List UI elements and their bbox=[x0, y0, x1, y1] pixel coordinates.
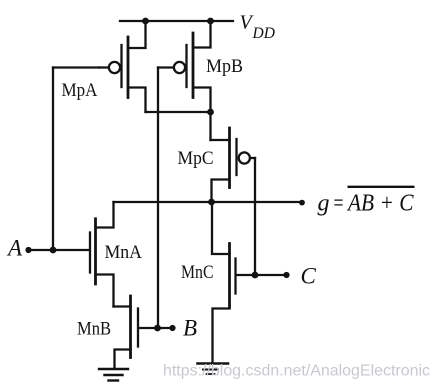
label VDD bbox=[240, 11, 275, 42]
transistor MnC bbox=[212, 202, 287, 364]
transistor MnB bbox=[114, 296, 173, 369]
wire: PMOS common-source bus bbox=[146, 111, 211, 113]
svg-text:A: A bbox=[6, 236, 23, 261]
junction dot: output / MpC,MnC drains bbox=[208, 199, 215, 206]
junction dot: C riser / MnC gate bbox=[252, 272, 259, 279]
label output g = overline(AB+C) bbox=[318, 187, 415, 217]
junction dot: B / MnB gate bbox=[154, 325, 161, 332]
ground (under MnC) bbox=[198, 364, 229, 375]
svg-text:B: B bbox=[183, 316, 197, 341]
svg-text:DD: DD bbox=[252, 25, 275, 42]
svg-text:g: g bbox=[318, 191, 330, 217]
wire: MpA gate lead to riser bbox=[53, 66, 99, 68]
svg-text:AB + C: AB + C bbox=[346, 191, 414, 217]
svg-text:https://blog.csdn.net/AnalogEl: https://blog.csdn.net/AnalogElectronic bbox=[163, 363, 430, 380]
junction dot: VDD / MpB drain bbox=[207, 18, 214, 25]
terminal dot: g bbox=[299, 200, 305, 206]
svg-text:MnC: MnC bbox=[181, 263, 214, 283]
transistor MpB bbox=[158, 21, 211, 112]
wire: B riser (MpB gate to MnB gate) bbox=[157, 68, 159, 329]
svg-text:MpB: MpB bbox=[206, 57, 243, 77]
svg-text:=: = bbox=[334, 191, 344, 217]
junction dot: bus / MpC source bbox=[207, 109, 214, 116]
junction dot: VDD / MpA drain bbox=[142, 18, 149, 25]
svg-text:MpA: MpA bbox=[62, 81, 99, 101]
wire: bus down to MpC source bbox=[209, 112, 211, 140]
svg-text:MpC: MpC bbox=[178, 149, 214, 169]
svg-text:MnB: MnB bbox=[77, 320, 111, 340]
wire: A riser (A node to MpA gate) bbox=[52, 68, 54, 251]
wire: output node g bbox=[114, 201, 303, 203]
svg-text:C: C bbox=[301, 264, 317, 289]
terminal dot: B bbox=[169, 325, 175, 331]
terminal dot: A bbox=[25, 247, 31, 253]
power rail VDD bbox=[120, 20, 233, 22]
ground (under MnB) bbox=[99, 369, 128, 381]
svg-text:MnA: MnA bbox=[105, 243, 143, 263]
terminal dot: C bbox=[283, 272, 289, 278]
wire: input A bbox=[29, 249, 89, 251]
transistor MpA bbox=[99, 21, 146, 112]
transistor MnA bbox=[90, 202, 114, 307]
transistor MpC bbox=[211, 128, 256, 202]
wire: C riser (MpC gate to MnC gate) bbox=[254, 158, 256, 275]
junction dot: A / riser bbox=[50, 247, 57, 254]
